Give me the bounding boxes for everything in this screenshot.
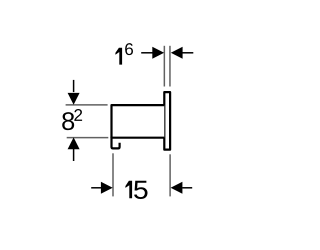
dim arrow 15 left (101, 182, 113, 194)
extension line left-upper (body top) (66, 104, 108, 106)
profile body fill (112, 105, 165, 138)
dim line 15 left tail (91, 187, 101, 189)
extension line left-lower (body bottom) (67, 137, 109, 139)
extension line bottom-right (flange right face) (169, 154, 171, 196)
dim text 8.2 digit 8 (62, 112, 74, 130)
extension line top-left (flange left face) (163, 46, 165, 87)
dim line 8.2 bottom tail (73, 149, 75, 161)
extension line bottom-left (hook left face) (112, 153, 114, 196)
dim line 8.2 top tail (73, 80, 75, 92)
dim arrow 15 right (171, 182, 183, 194)
dim line 15 right tail (182, 187, 192, 189)
flange plate outline (164, 92, 170, 150)
dim arrow 1.6 right (171, 47, 183, 59)
dim line 1.6 right tail (182, 52, 193, 54)
dim text 15 digit 5 (134, 181, 147, 199)
dim arrow 8.2 bottom (68, 137, 80, 149)
dim arrow 8.2 top (68, 93, 80, 105)
extension line top-right (flange right face) (169, 46, 171, 87)
dim text 1.6 superscript 6 (125, 43, 133, 55)
dim text 15 digit 1 (125, 181, 132, 199)
dim arrow 1.6 left (152, 47, 164, 59)
dim text 1.6 digit 1 (115, 48, 122, 65)
profile body outline (112, 105, 165, 138)
dim line 1.6 left tail (141, 52, 152, 54)
hook lip (112, 137, 120, 149)
dim text 8.2 superscript 2 (74, 109, 82, 121)
